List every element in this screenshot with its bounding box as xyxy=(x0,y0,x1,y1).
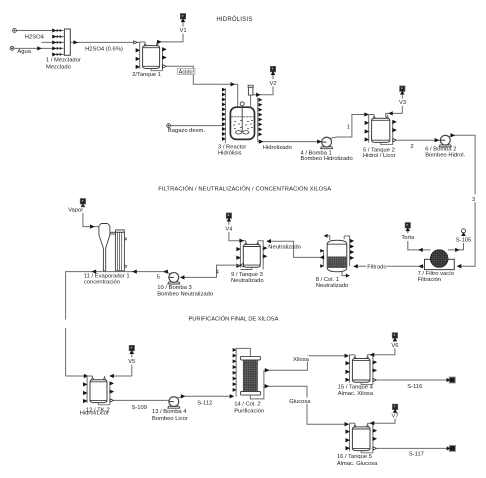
column 8 / Col. 1 vessel xyxy=(327,240,347,272)
stream Vapor wire xyxy=(82,205,84,206)
column8 packing xyxy=(328,257,347,269)
reactor motor xyxy=(240,102,244,106)
stream S-112 wire xyxy=(177,396,232,398)
stream Filtrado wire xyxy=(354,265,425,267)
svg-text:Bombeo Licor: Bombeo Licor xyxy=(152,416,188,422)
stream 4 wire xyxy=(184,265,240,277)
reactor vessel xyxy=(230,107,254,139)
svg-text:Mezclado: Mezclado xyxy=(46,65,71,71)
stream S-116 wire xyxy=(377,379,448,381)
tank 2 / Tanque 1 xyxy=(144,44,145,46)
stream V3 wire xyxy=(386,106,403,117)
label Acido boxed xyxy=(177,69,195,75)
stream Glucosa wire xyxy=(264,386,348,424)
vent V7 xyxy=(393,404,398,409)
svg-text:3: 3 xyxy=(472,197,475,203)
svg-text:Torta: Torta xyxy=(401,235,415,241)
svg-text:S-116: S-116 xyxy=(407,384,422,390)
vent V6 xyxy=(392,333,397,338)
stream V5 wire xyxy=(112,365,132,376)
svg-text:Neutralizado: Neutralizado xyxy=(316,283,349,289)
vent V4 xyxy=(226,213,231,218)
stream 2 wire xyxy=(396,139,440,141)
stream condenser to V2 wire xyxy=(253,86,273,94)
svg-text:Xilosa: Xilosa xyxy=(293,357,310,363)
stream V7 wire xyxy=(372,418,396,423)
vent V1 xyxy=(180,14,185,19)
vent Torta xyxy=(405,223,410,228)
tank 15 / Tanque 4 xyxy=(354,357,355,359)
svg-text:Vapor: Vapor xyxy=(68,208,83,214)
end connector S-117 xyxy=(449,446,455,452)
svg-text:Neutralizado: Neutralizado xyxy=(268,245,301,251)
svg-text:S-117: S-117 xyxy=(409,452,424,458)
stream S-105 wire xyxy=(448,243,464,250)
svg-text:1 / Mezclador: 1 / Mezclador xyxy=(46,58,81,64)
svg-text:V4: V4 xyxy=(225,227,233,233)
svg-text:V1: V1 xyxy=(179,28,186,34)
svg-text:HIDRÓLISIS: HIDRÓLISIS xyxy=(216,16,252,23)
evaporator flash body xyxy=(99,224,110,271)
svg-text:Filtración: Filtración xyxy=(418,277,442,283)
column8 left bracket xyxy=(322,250,324,267)
end connector S-116 xyxy=(449,377,455,383)
svg-text:Hidrolizado: Hidrolizado xyxy=(263,145,292,151)
svg-text:2: 2 xyxy=(410,144,413,150)
stream Torta wire xyxy=(408,241,431,250)
stream Acido wire xyxy=(166,66,237,107)
svg-text:Almac. Xilosa: Almac. Xilosa xyxy=(338,391,374,397)
svg-text:V5: V5 xyxy=(128,359,135,365)
filter trough xyxy=(425,259,455,269)
column14 right bracket xyxy=(250,370,264,399)
svg-text:Hidrol/Licor: Hidrol/Licor xyxy=(80,410,109,416)
svg-text:15 / Tanque 4: 15 / Tanque 4 xyxy=(338,384,374,390)
reactor agitator shaft xyxy=(241,106,243,132)
svg-text:2/Tanque 1: 2/Tanque 1 xyxy=(132,72,161,78)
svg-text:Bagazo desm.: Bagazo desm. xyxy=(168,128,205,134)
reactor right port manifold xyxy=(258,98,263,142)
svg-text:H2SO4: H2SO4 xyxy=(25,34,45,40)
evaporator calandria xyxy=(116,230,125,232)
column14 bottom flange xyxy=(240,392,260,396)
svg-text:concentración: concentración xyxy=(84,280,120,286)
pump 6 / Bomba 2 xyxy=(439,145,451,147)
svg-text:Bombeo Hidrol.: Bombeo Hidrol. xyxy=(425,152,465,158)
output connector S-105 xyxy=(461,229,465,233)
stream V4 wire xyxy=(229,232,240,241)
svg-text:FILTRACIÓN / NEUTRALIZACIÓN /: FILTRACIÓN / NEUTRALIZACIÓN / CONCENTRAC… xyxy=(158,186,331,193)
vent V3 xyxy=(400,86,405,91)
stream Hidrolizado wire xyxy=(262,141,321,143)
svg-text:14 / Col. 2: 14 / Col. 2 xyxy=(234,402,260,408)
column14 body xyxy=(243,360,258,392)
column8 right bracket xyxy=(344,236,349,266)
filter drum xyxy=(430,250,448,268)
stream 3 wire xyxy=(449,135,475,266)
svg-text:Hidrólisis: Hidrólisis xyxy=(218,150,242,156)
svg-text:V7: V7 xyxy=(392,413,399,419)
svg-text:Bombeo Neutralizado: Bombeo Neutralizado xyxy=(157,291,213,297)
source connector Agua xyxy=(10,47,14,51)
stream V6 wire xyxy=(372,348,395,355)
label Glucosa xyxy=(288,398,308,404)
tank 16 / Tanque 5 xyxy=(354,426,355,428)
stream Bagazo wire xyxy=(171,125,225,127)
svg-text:16 / Tanque 5: 16 / Tanque 5 xyxy=(337,454,372,460)
svg-text:13 / Bomba 4: 13 / Bomba 4 xyxy=(152,409,187,415)
svg-text:7 / Filtro vacío: 7 / Filtro vacío xyxy=(418,271,454,277)
column14 left bracket xyxy=(236,348,250,396)
svg-text:Neutralizado: Neutralizado xyxy=(231,278,264,284)
svg-text:V3: V3 xyxy=(399,100,406,106)
stream S-117 wire xyxy=(377,447,448,449)
column8 bottom stub xyxy=(342,271,347,275)
stream S-109 wire xyxy=(114,399,169,401)
svg-text:S-109: S-109 xyxy=(132,405,147,411)
column14 top flange xyxy=(240,356,260,360)
label stream 3 xyxy=(471,194,478,202)
svg-text:1: 1 xyxy=(347,124,350,130)
stream 1 wire xyxy=(330,115,368,139)
svg-text:Filtrado: Filtrado xyxy=(367,265,386,271)
stream Xilosa wire xyxy=(264,356,348,370)
svg-text:Glucosa: Glucosa xyxy=(289,399,311,405)
svg-text:Ácido!: Ácido! xyxy=(179,69,195,76)
evaporator duct xyxy=(110,231,116,233)
stream Agua wire xyxy=(14,47,64,49)
vent V5 xyxy=(129,345,134,350)
vent V2 xyxy=(270,66,275,71)
label Filtrado xyxy=(366,263,387,269)
stream H2SO4 (0.6%) wire xyxy=(70,41,140,43)
column8 top-left vent stub xyxy=(326,236,329,240)
svg-text:5: 5 xyxy=(157,275,160,281)
tank 5 / Tanque 2 xyxy=(373,117,374,119)
svg-text:S-105: S-105 xyxy=(456,238,471,244)
reactor impeller xyxy=(236,131,242,134)
label Xilosa xyxy=(292,356,308,362)
svg-text:PURIFICACIÓN FINAL DE XILOSA: PURIFICACIÓN FINAL DE XILOSA xyxy=(189,315,279,322)
mixer 1 / Mezclador xyxy=(64,29,70,55)
reactor condenser xyxy=(248,85,253,87)
svg-text:3 / Reactor: 3 / Reactor xyxy=(218,144,246,150)
pump 13 / Bomba 4 xyxy=(168,406,180,408)
pump 4 / Bomba 1 xyxy=(321,147,333,149)
svg-text:Almac. Glucosa: Almac. Glucosa xyxy=(337,461,378,467)
svg-text:S-112: S-112 xyxy=(197,401,212,407)
stream 5 wire xyxy=(131,272,170,274)
svg-text:Bombeo Hidrolizado: Bombeo Hidrolizado xyxy=(301,156,353,162)
svg-text:10 / Bomba 3: 10 / Bomba 3 xyxy=(157,285,191,291)
svg-text:V2: V2 xyxy=(269,81,276,87)
svg-text:Hidrol / Licor: Hidrol / Licor xyxy=(363,153,396,159)
reactor 3 / Reactor left port manifold xyxy=(224,88,226,143)
svg-text:Agua: Agua xyxy=(17,49,31,55)
stream concentrate wire xyxy=(66,272,94,320)
svg-text:V6: V6 xyxy=(391,343,398,349)
evaporator bottom line xyxy=(94,271,131,273)
stream H2SO4 wire xyxy=(16,30,63,32)
tank 9 / Tanque 3 xyxy=(245,243,246,245)
stream tank2 to V1 wire xyxy=(157,34,183,42)
source connector Bagazo xyxy=(167,124,171,128)
svg-text:Purificación: Purificación xyxy=(234,409,264,415)
pump 10 / Bomba 3 xyxy=(168,282,180,284)
svg-text:H2SO4 (0.6%): H2SO4 (0.6%) xyxy=(85,47,123,53)
tank 12 / TK-2 xyxy=(92,378,93,380)
source connector H2SO4 xyxy=(13,29,17,33)
stream Neutralizado wire xyxy=(267,241,323,257)
vent Vapor valve xyxy=(80,199,85,204)
